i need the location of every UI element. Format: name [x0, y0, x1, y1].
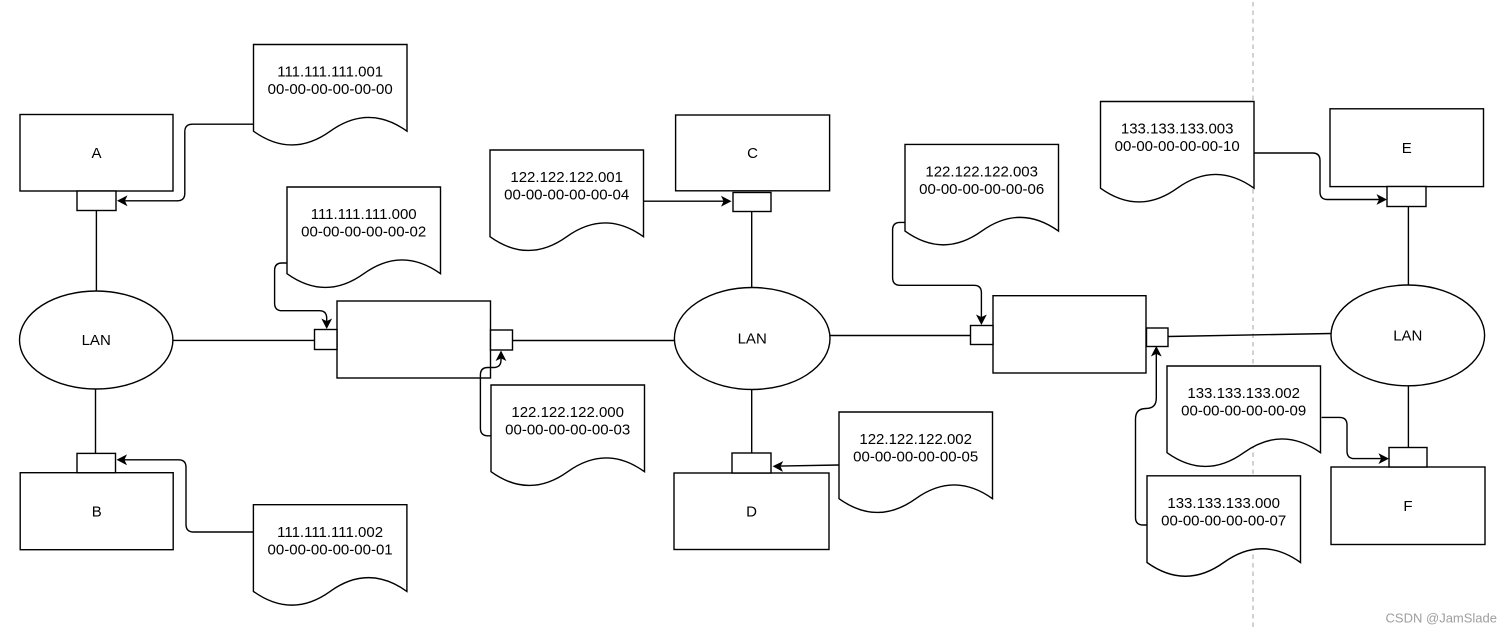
svg-text:111.111.111.002: 111.111.111.002 — [277, 524, 383, 541]
svg-text:122.122.122.002: 122.122.122.002 — [859, 431, 972, 448]
wire LAN1 to R1 left interface — [173, 339, 315, 341]
host E — [1330, 109, 1484, 187]
document doc00 111.111.111.001 — [254, 45, 408, 145]
wire R2 right interface to LAN3 — [1168, 334, 1331, 337]
document doc05 122.122.122.002 — [839, 412, 993, 512]
svg-text:111.111.111.001: 111.111.111.001 — [277, 64, 383, 81]
connector doc03 to R1 right interface with arrow — [480, 358, 501, 436]
document doc01 111.111.111.002 — [253, 505, 407, 605]
host C — [676, 115, 830, 191]
svg-text:F: F — [1403, 498, 1412, 515]
svg-text:111.111.111.000: 111.111.111.000 — [311, 206, 417, 223]
svg-text:CSDN @JamSlade: CSDN @JamSlade — [1386, 611, 1497, 626]
interface E-if — [1387, 187, 1426, 207]
router R1 — [337, 301, 491, 378]
dashed network boundary line — [1252, 2, 1254, 628]
svg-text:LAN: LAN — [82, 332, 111, 349]
wire LAN2 to R2 left interface — [830, 335, 971, 337]
wire LAN3 to F-if — [1407, 386, 1409, 448]
interface B-if — [77, 453, 116, 472]
host B — [20, 473, 173, 550]
svg-text:122.122.122.001: 122.122.122.001 — [510, 169, 623, 186]
document doc04 122.122.122.001 — [490, 150, 644, 250]
connector doc02 to R1 left interface with arrow — [275, 263, 327, 322]
svg-text:00-00-00-00-00-01: 00-00-00-00-00-01 — [268, 541, 393, 558]
LAN ellipse 2 — [674, 288, 830, 390]
connector doc07 to R2 right interface with arrow — [1136, 353, 1157, 525]
svg-text:E: E — [1402, 140, 1412, 157]
connector doc01 to B-if with arrow — [124, 460, 254, 532]
svg-text:B: B — [92, 503, 102, 520]
svg-text:D: D — [746, 504, 757, 521]
wire R1 right interface to LAN2 — [513, 340, 675, 342]
interface R1 left — [315, 330, 338, 350]
svg-text:00-00-00-00-00-04: 00-00-00-00-00-04 — [504, 187, 629, 204]
svg-text:00-00-00-00-00-06: 00-00-00-00-00-06 — [919, 181, 1044, 198]
wire A-if to LAN1 — [95, 211, 97, 292]
interface F-if — [1389, 448, 1427, 468]
LAN ellipse 3 — [1331, 285, 1485, 386]
connector doc10 to E-if with arrow — [1254, 153, 1380, 200]
host D — [674, 473, 829, 550]
connector doc09 to F-if with arrow — [1322, 417, 1382, 458]
LAN ellipse 1 — [20, 291, 173, 389]
svg-text:133.133.133.002: 133.133.133.002 — [1187, 385, 1300, 402]
svg-text:00-00-00-00-00-03: 00-00-00-00-00-03 — [505, 422, 630, 439]
interface C-if — [733, 193, 771, 212]
document doc02 111.111.111.000 — [287, 187, 441, 287]
host F — [1331, 467, 1485, 545]
wire E-if to LAN3 — [1407, 207, 1409, 286]
interface R2 left — [971, 326, 994, 345]
wire LAN2 to C-if — [751, 212, 753, 288]
document doc06 122.122.122.003 — [905, 144, 1059, 244]
document doc03 122.122.122.000 — [491, 385, 645, 485]
interface D-if — [732, 453, 771, 473]
svg-text:00-00-00-00-00-00: 00-00-00-00-00-00 — [268, 81, 393, 98]
document doc09 133.133.133.002 — [1167, 366, 1321, 466]
svg-text:00-00-00-00-00-02: 00-00-00-00-00-02 — [301, 224, 426, 241]
host A — [20, 115, 173, 192]
svg-text:00-00-00-00-00-05: 00-00-00-00-00-05 — [853, 449, 978, 466]
document doc07 133.133.133.000 — [1147, 476, 1301, 576]
interface A-if — [77, 191, 116, 211]
connector doc00 to A-if with arrow — [124, 124, 254, 201]
connector doc04 to C-if with arrow — [644, 200, 725, 202]
svg-text:LAN: LAN — [1393, 328, 1422, 345]
router R2 — [993, 296, 1146, 373]
svg-text:133.133.133.003: 133.133.133.003 — [1121, 121, 1234, 138]
wire LAN1 to B-if — [95, 389, 97, 453]
svg-text:122.122.122.000: 122.122.122.000 — [511, 404, 624, 421]
svg-text:00-00-00-00-00-09: 00-00-00-00-00-09 — [1181, 403, 1306, 420]
svg-text:00-00-00-00-00-07: 00-00-00-00-00-07 — [1161, 513, 1286, 530]
document doc10 133.133.133.003 — [1101, 102, 1255, 202]
connector doc05 to D-if with arrow — [779, 465, 838, 466]
svg-text:A: A — [91, 145, 101, 162]
svg-text:C: C — [747, 145, 758, 162]
svg-text:LAN: LAN — [738, 331, 767, 348]
connector doc06 to R2 left interface with arrow — [893, 222, 982, 318]
svg-text:122.122.122.003: 122.122.122.003 — [925, 164, 1038, 181]
svg-text:133.133.133.000: 133.133.133.000 — [1167, 495, 1280, 512]
svg-text:00-00-00-00-00-10: 00-00-00-00-00-10 — [1115, 138, 1240, 155]
interface R1 right — [491, 330, 513, 350]
interface R2 right — [1147, 328, 1169, 347]
wire LAN2 to D-if — [751, 390, 753, 454]
